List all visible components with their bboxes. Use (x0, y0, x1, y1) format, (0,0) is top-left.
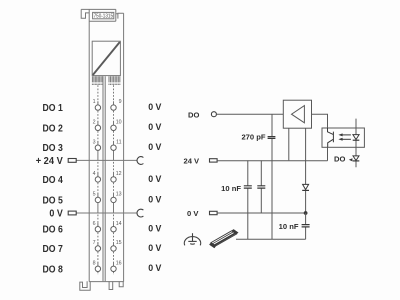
svg-text:DO: DO (334, 155, 345, 164)
svg-text:14: 14 (116, 221, 122, 227)
24V terminal box (210, 159, 218, 162)
24V jumper socket arc (137, 157, 143, 165)
svg-text:10: 10 (116, 119, 122, 125)
contact numbers col0 (93, 99, 96, 266)
opto LED wire (355, 119, 357, 148)
contact 5 link to 0V rail col0 (97, 203, 99, 213)
driver triangle (292, 106, 305, 123)
wire driver to optocoupler (312, 114, 328, 128)
contact numbers col1 (116, 99, 122, 266)
module label plate (89, 9, 116, 21)
svg-text:DO 2: DO 2 (43, 123, 64, 134)
phototransistor (328, 128, 334, 147)
contact column dashed line right (113, 85, 115, 275)
driver leg left (288, 128, 290, 160)
capacitor C2 plates (244, 186, 252, 188)
svg-text:DO 6: DO 6 (43, 225, 64, 236)
capacitor C3 plates (257, 186, 265, 188)
contact stubs col0 (97, 101, 99, 266)
svg-text:DO 3: DO 3 (43, 143, 64, 154)
contact column dashed line left (97, 85, 99, 275)
svg-text:1: 1 (93, 99, 96, 105)
svg-text:+ 24 V: + 24 V (36, 156, 63, 167)
svg-text:DO 5: DO 5 (43, 195, 64, 206)
svg-text:750-1315: 750-1315 (94, 13, 113, 19)
marking field diagonal (93, 42, 120, 75)
module order-number box 750-1315 (93, 12, 114, 18)
svg-text:2: 2 (93, 119, 96, 125)
status LED wire (355, 147, 357, 167)
junction node (304, 211, 308, 215)
svg-text:0 V: 0 V (148, 262, 162, 273)
driver box U1 (283, 100, 311, 128)
svg-text:0 V: 0 V (148, 242, 162, 253)
0V terminal blade box (68, 211, 76, 215)
svg-text:8: 8 (93, 260, 96, 266)
capacitor C4 plates (302, 225, 310, 227)
right 0V labels (148, 101, 162, 273)
svg-text:DO 4: DO 4 (43, 175, 64, 186)
svg-text:0 V: 0 V (148, 193, 162, 204)
capacitor C3 10nF branch (24V to 0V) (260, 160, 262, 213)
svg-text:12: 12 (116, 171, 122, 177)
capacitor C1 270pF plates (268, 137, 276, 139)
svg-text:5: 5 (93, 192, 96, 198)
opto emitter wire to 24V rail (327, 147, 329, 160)
24V power jumper rail (76, 159, 137, 161)
0V rail wire (217, 212, 306, 214)
module bottom edge (89, 281, 123, 283)
svg-text:13: 13 (116, 192, 122, 198)
svg-text:3: 3 (93, 139, 96, 145)
contact comb ticks (92, 76, 119, 82)
svg-text:0 V: 0 V (148, 101, 162, 112)
contact stubs col1 (113, 101, 115, 266)
module left mounting foot (80, 281, 90, 290)
functional earth symbol (184, 233, 200, 245)
contact comb dashes (92, 84, 119, 85)
svg-text:DO 7: DO 7 (43, 244, 64, 255)
svg-text:0 V: 0 V (187, 209, 199, 218)
svg-text:11: 11 (116, 139, 122, 145)
svg-text:0 V: 0 V (148, 141, 162, 152)
24V terminal blade box (68, 159, 76, 163)
module left latch hook (81, 9, 89, 18)
svg-text:10 nF: 10 nF (221, 184, 241, 193)
svg-text:270 pF: 270 pF (241, 132, 265, 141)
svg-text:4: 4 (93, 171, 96, 177)
module middle mounting foot (109, 281, 113, 289)
module center divider (103, 76, 105, 281)
suppressor diode D1 (303, 184, 309, 189)
status LED (353, 156, 359, 161)
svg-text:9: 9 (119, 99, 122, 105)
capacitor C4 10nF branch (0V to FE) (305, 213, 307, 239)
contact circles col1 (111, 105, 116, 272)
module right mounting foot (119, 281, 123, 287)
0V jumper socket arc (137, 209, 143, 217)
DIN rail symbol (209, 229, 238, 248)
module left edge (88, 9, 90, 281)
contact 3 link to 24V rail col0 (97, 151, 99, 161)
light arrow lower (342, 138, 351, 140)
0V terminal box (210, 211, 218, 214)
capacitor C1 270pF branch (271, 114, 273, 239)
contact 3 link to 24V rail col1 (113, 151, 115, 161)
left terminal labels (36, 103, 63, 275)
module top line (81, 8, 116, 10)
contact 5 link to 0V rail col1 (113, 203, 115, 213)
svg-text:0 V: 0 V (148, 121, 162, 132)
svg-text:0 V: 0 V (148, 173, 162, 184)
optocoupler box U2 (322, 128, 364, 147)
svg-text:16: 16 (116, 260, 122, 266)
svg-text:DO 8: DO 8 (43, 264, 64, 275)
0V power jumper rail (76, 212, 137, 214)
marking field box (92, 41, 120, 75)
opto LED (353, 135, 359, 140)
DO wire to driver (216, 113, 283, 115)
svg-text:6: 6 (93, 221, 96, 227)
svg-text:0 V: 0 V (148, 223, 162, 234)
capacitor C2 10nF branch (24V to FE) (247, 160, 249, 239)
svg-text:10 nF: 10 nF (279, 222, 299, 231)
contact circles col0 (95, 105, 100, 272)
status LED arrow (349, 158, 353, 161)
svg-text:DO 1: DO 1 (43, 103, 64, 114)
driver leg right / diode branch (305, 128, 307, 213)
svg-text:15: 15 (116, 240, 122, 246)
light arrow upper (342, 134, 351, 136)
module right edge (123, 13, 125, 281)
module right latch hook (116, 13, 124, 18)
svg-text:0 V: 0 V (49, 209, 63, 220)
svg-text:DO: DO (188, 110, 199, 119)
24V rail wire (217, 160, 327, 162)
functional earth line (236, 238, 306, 240)
DO input terminal circle (211, 112, 216, 117)
svg-text:7: 7 (93, 240, 96, 246)
svg-text:24 V: 24 V (184, 156, 201, 165)
